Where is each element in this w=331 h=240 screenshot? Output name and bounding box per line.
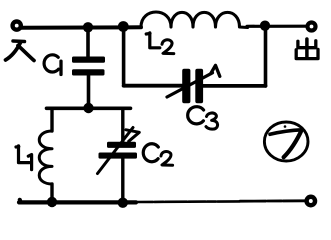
inductor L1 bbox=[39, 131, 52, 184]
terminal bottom-right bbox=[307, 197, 315, 205]
terminal output top-right bbox=[308, 23, 316, 31]
wire top-left horizontal bbox=[21, 25, 142, 29]
wire top-right horizontal bbox=[247, 25, 307, 28]
capacitor C3 plates bbox=[182, 69, 203, 104]
inductor L2 bbox=[133, 12, 248, 28]
input symbol 入 bbox=[6, 41, 35, 61]
label L2 bbox=[146, 33, 174, 54]
wire C2 bottom vertical bbox=[121, 159, 124, 203]
wire L1 bottom vertical bbox=[50, 184, 53, 203]
node junction C1 top bbox=[83, 22, 93, 32]
node junction C2 bottom bbox=[118, 198, 128, 208]
label C1 bbox=[44, 55, 61, 75]
wire C1 vertical upper bbox=[86, 27, 90, 57]
output symbol 出 bbox=[296, 39, 318, 59]
capacitor C2 plates bbox=[99, 142, 138, 159]
wire L2-C3 loop right vertical bbox=[264, 26, 268, 86]
wire bottom-left horizontal bbox=[19, 200, 136, 203]
wire C3 right horizontal bbox=[203, 84, 266, 88]
wire L1 top vertical bbox=[50, 108, 53, 131]
wire C3 left horizontal bbox=[124, 84, 182, 88]
wire tank top horizontal bbox=[47, 107, 131, 111]
wire C1 vertical lower bbox=[87, 76, 91, 109]
wire L2-C3 loop left vertical bbox=[122, 27, 127, 86]
node junction L2 left bbox=[118, 21, 129, 32]
node junction tank top bbox=[83, 103, 93, 113]
node junction L1 bottom bbox=[47, 197, 57, 207]
terminal input top-left bbox=[13, 22, 21, 30]
label L1 bbox=[16, 146, 32, 170]
wire C2 top vertical bbox=[121, 108, 124, 141]
variable arrow C3 bbox=[167, 65, 220, 97]
label C2 bbox=[143, 144, 172, 165]
wire bottom-right horizontal bbox=[136, 200, 240, 203]
label C3 bbox=[188, 107, 218, 129]
variable arrow C2 bbox=[98, 128, 140, 174]
figure number circle 7 bbox=[264, 122, 308, 161]
node junction L2 right bbox=[260, 21, 270, 31]
capacitor C1 plates bbox=[72, 57, 105, 76]
